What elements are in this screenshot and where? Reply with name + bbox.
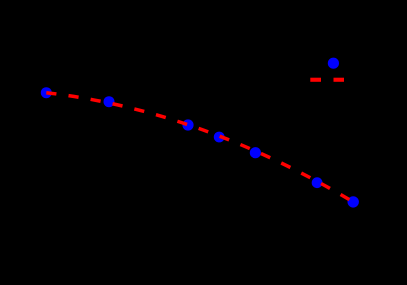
data point 7 bbox=[348, 196, 359, 207]
data point 3 bbox=[182, 119, 193, 130]
fit curve (red dashed) bbox=[46, 93, 353, 202]
data point 1 bbox=[41, 87, 52, 98]
data point 6 bbox=[312, 177, 323, 188]
data point 4 bbox=[214, 132, 225, 143]
data point 2 bbox=[104, 96, 115, 107]
legend marker dot bbox=[328, 58, 339, 69]
legend dashed-line sample: dash 1 bbox=[310, 78, 321, 82]
legend dashed-line sample: dash 2 bbox=[334, 78, 345, 82]
data point 5 bbox=[250, 147, 261, 158]
